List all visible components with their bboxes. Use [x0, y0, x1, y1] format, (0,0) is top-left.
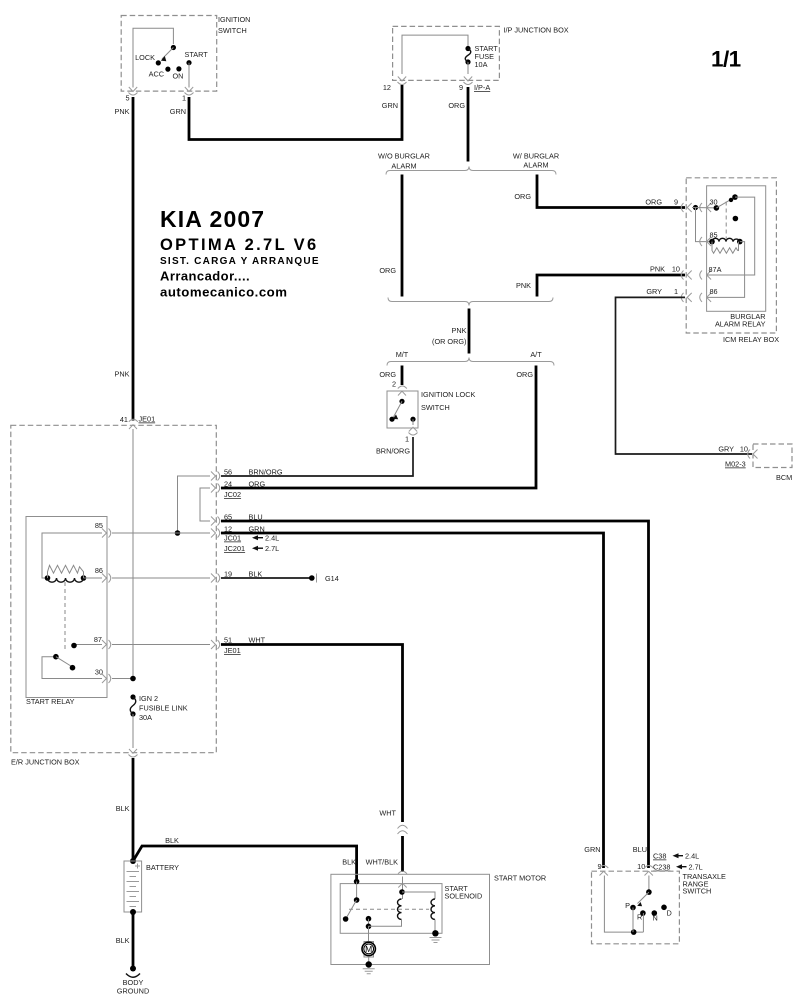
svg-text:86: 86 [95, 566, 103, 575]
svg-text:12: 12 [383, 83, 391, 92]
transaxle pin 10 connector [644, 866, 653, 876]
svg-text:BLK: BLK [165, 836, 179, 845]
start motor box [331, 874, 546, 965]
wire ORG from I/P pin 9 down to brace [448, 87, 468, 162]
node at battery - [130, 909, 136, 915]
inline connector on WHT wire [398, 825, 408, 834]
svg-text:JC201: JC201 [224, 544, 245, 553]
wire PNK (OR ORG) [432, 309, 469, 354]
I/P junction box [393, 26, 569, 81]
solenoid ground [430, 930, 442, 942]
wire start relay pin30 row to JE01 line [112, 678, 133, 680]
transaxle pin 9 connector [599, 866, 608, 876]
pin 5 connector [125, 87, 137, 103]
wire BLK battery to body ground [116, 912, 133, 966]
svg-text:M: M [365, 944, 372, 954]
ignition lock switch internal [389, 399, 415, 425]
svg-text:IGNITION LOCK: IGNITION LOCK [421, 390, 475, 399]
relay coil (burglar alarm relay) [707, 238, 745, 297]
ICM pin 85 connector [700, 231, 718, 247]
svg-text:BLU: BLU [633, 845, 647, 854]
ignition switch box [121, 15, 250, 91]
svg-text:9: 9 [459, 83, 463, 92]
svg-text:ALARM: ALARM [523, 161, 548, 170]
start relay pin 30 connector [95, 668, 111, 684]
I/P pin 12 connector [383, 77, 407, 93]
svg-text:BLK: BLK [116, 936, 130, 945]
wire BLK from E/R pin 19 to G14 [221, 574, 339, 584]
wire start relay pin85 row to E/R pin 12 [112, 532, 210, 534]
wire PNK from ICM 87A to brace [516, 265, 685, 297]
svg-text:ALARM RELAY: ALARM RELAY [715, 320, 766, 329]
svg-text:1: 1 [182, 94, 186, 103]
node BLK entry [354, 879, 360, 885]
svg-text:1/1: 1/1 [711, 47, 741, 72]
ignition switch contacts LOCK ACC ON START [135, 50, 208, 81]
svg-text:30A: 30A [139, 713, 152, 722]
svg-text:C238: C238 [653, 863, 670, 872]
svg-text:ORG: ORG [448, 101, 465, 110]
svg-text:2.7L: 2.7L [265, 544, 279, 553]
E/R internal jumper pin24 to pin65 [200, 488, 210, 521]
svg-text:GRN: GRN [170, 107, 186, 116]
motor ground [363, 957, 375, 974]
starter motor M [362, 942, 375, 958]
svg-text:10: 10 [637, 862, 645, 871]
start relay pin 86 connector [95, 566, 111, 583]
svg-text:OPTIMA 2.7L V6: OPTIMA 2.7L V6 [160, 236, 319, 254]
svg-text:GRN: GRN [584, 845, 600, 854]
node junction pin30/JE01 [130, 676, 136, 682]
svg-text:86: 86 [710, 287, 718, 296]
burglar alarm relay box (inner) [707, 186, 766, 329]
ICM pin 87A connector [681, 265, 721, 280]
solenoid top connector for WHT/BLK [398, 871, 407, 887]
svg-text:A/T: A/T [530, 350, 542, 359]
wire ORG A/T branch down to pin 24 row [221, 366, 536, 489]
solenoid pull-in coil [369, 877, 405, 927]
svg-text:GRN: GRN [382, 101, 398, 110]
svg-text:ORG: ORG [379, 370, 396, 379]
svg-text:2: 2 [392, 380, 396, 389]
start relay pin 87 connector [94, 635, 111, 649]
start relay box [26, 517, 107, 707]
svg-text:IGNITION: IGNITION [218, 15, 250, 24]
start solenoid box [340, 884, 482, 934]
svg-text:Arrancador....: Arrancador.... [160, 268, 250, 283]
svg-text:W/O BURGLAR: W/O BURGLAR [378, 152, 430, 161]
svg-text:SWITCH: SWITCH [421, 403, 450, 412]
svg-text:START MOTOR: START MOTOR [494, 874, 546, 883]
body ground [117, 966, 149, 996]
svg-text:SOLENOID: SOLENOID [445, 892, 483, 901]
BCM box [748, 444, 792, 482]
wire BLK branch to start motor [133, 836, 357, 881]
svg-text:R: R [637, 913, 642, 922]
svg-text:2.4L: 2.4L [265, 534, 279, 543]
E/R pin 12 connector [211, 525, 279, 554]
pin 1 connector (bottom) [405, 427, 418, 443]
svg-text:9: 9 [674, 198, 678, 207]
start relay switch [42, 643, 102, 679]
wire start relay pin86 row to E/R pin 19 [112, 577, 210, 579]
battery [124, 861, 179, 912]
wire GRY from ICM pin 86 to BCM [616, 287, 753, 469]
svg-text:START: START [185, 50, 209, 59]
svg-text:JC01: JC01 [224, 534, 241, 543]
svg-text:PNK: PNK [114, 107, 129, 116]
svg-text:C38: C38 [653, 852, 666, 861]
wire BLK from E/R to battery [116, 758, 133, 861]
svg-text:I/P-A: I/P-A [474, 83, 490, 92]
svg-text:BRN/ORG: BRN/ORG [249, 468, 283, 477]
ignition lock switch box [387, 390, 475, 428]
wire BRN/ORG from lock switch to pin 56 [221, 437, 413, 476]
svg-text:30: 30 [95, 668, 103, 677]
svg-text:P: P [625, 901, 630, 910]
KIA title block [160, 206, 320, 300]
brace split M/T A/T [387, 350, 554, 366]
svg-text:1: 1 [405, 435, 409, 444]
wire GRN from ignition pin 1 [170, 85, 402, 140]
svg-text:PNK: PNK [114, 370, 129, 379]
svg-text:GRY: GRY [646, 287, 662, 296]
svg-text:ORG: ORG [645, 198, 662, 207]
svg-text:10: 10 [740, 445, 748, 454]
start fuse 10A [465, 44, 498, 74]
svg-text:GROUND: GROUND [117, 987, 149, 996]
svg-text:JC02: JC02 [224, 490, 241, 499]
svg-text:PNK: PNK [516, 281, 531, 290]
svg-text:M02-3: M02-3 [725, 460, 746, 469]
brace split W/O and W/ burglar alarm [378, 152, 559, 175]
svg-text:JE01: JE01 [224, 646, 241, 655]
solenoid switch [343, 882, 372, 930]
svg-text:ON: ON [173, 72, 184, 81]
svg-text:56: 56 [224, 468, 232, 477]
E/R pin 19 connector [211, 570, 262, 583]
svg-text:ALARM: ALARM [391, 162, 416, 171]
wire start relay pin87 row to E/R pin 51 [112, 644, 210, 646]
transaxle internal switch [604, 876, 671, 935]
svg-text:10: 10 [672, 265, 680, 274]
ICM pin 30 connector [681, 198, 717, 213]
svg-text:N: N [653, 914, 658, 923]
svg-text:E/R JUNCTION BOX: E/R JUNCTION BOX [11, 758, 80, 767]
svg-text:PNK: PNK [451, 326, 466, 335]
svg-text:automecanico.com: automecanico.com [160, 285, 287, 300]
node at battery + [130, 858, 136, 864]
start relay pin 85 connector [95, 521, 111, 538]
svg-text:ORG: ORG [514, 192, 531, 201]
brace merge to PNK (OR ORG) [388, 298, 553, 306]
transaxle range switch box [592, 871, 727, 944]
start relay coil [42, 533, 102, 652]
svg-text:BLK: BLK [342, 858, 356, 867]
svg-text:WHT: WHT [379, 809, 396, 818]
E/R pin 56 connector [211, 468, 283, 481]
I/P internal wire [402, 35, 468, 74]
svg-text:87A: 87A [709, 265, 722, 274]
relay switch contact 30 [692, 194, 755, 275]
svg-text:SWITCH: SWITCH [683, 887, 712, 896]
wire START contact to pin 1 [188, 63, 190, 88]
svg-text:G14: G14 [325, 574, 339, 583]
svg-text:BATTERY: BATTERY [146, 863, 179, 872]
svg-text:24: 24 [224, 480, 232, 489]
svg-text:(OR ORG): (OR ORG) [432, 337, 466, 346]
svg-text:10A: 10A [475, 60, 488, 69]
svg-text:JE01: JE01 [139, 415, 156, 424]
wire BLU from E/R pin 65 to transaxle [221, 521, 649, 868]
svg-text:FUSIBLE LINK: FUSIBLE LINK [139, 704, 188, 713]
wire PNK from ignition pin 5 down [114, 97, 133, 421]
svg-text:85: 85 [95, 521, 103, 530]
svg-text:BCM: BCM [776, 473, 792, 482]
IGN 2 fusible link 30A [130, 694, 188, 748]
svg-text:M/T: M/T [396, 350, 409, 359]
svg-text:LOCK: LOCK [135, 53, 155, 62]
svg-text:KIA 2007: KIA 2007 [160, 206, 265, 232]
svg-text:1: 1 [674, 287, 678, 296]
wire WHT/BLK continues to solenoid [342, 836, 402, 872]
svg-text:ORG: ORG [516, 370, 533, 379]
svg-text:BRN/ORG: BRN/ORG [376, 447, 410, 456]
node junction on pin 12 row [175, 530, 181, 536]
E/R internal jumper pin56 to pin12 row [178, 476, 211, 533]
ignition switch internal circuit [133, 28, 176, 87]
wire PNK/JE01 inside E/R box [132, 429, 134, 679]
wire ORG left branch of brace [379, 175, 402, 297]
svg-text:PNK: PNK [650, 265, 665, 274]
ICM pin 86 connector [681, 287, 717, 302]
dashed actuator line [349, 908, 429, 910]
svg-text:41: 41 [120, 415, 128, 424]
svg-text:SIST. CARGA Y ARRANQUE: SIST. CARGA Y ARRANQUE [160, 256, 320, 267]
svg-text:WHT/BLK: WHT/BLK [366, 858, 399, 867]
svg-text:IGN 2: IGN 2 [139, 694, 158, 703]
wire to starter motor [368, 926, 370, 941]
wire ORG right branch to ICM relay [514, 175, 685, 208]
svg-text:BLK: BLK [116, 804, 130, 813]
E/R pin 65 connector [211, 513, 263, 526]
pin 41 JE01 connector at E/R top [120, 415, 155, 430]
wire GRN from E/R pin 12 to transaxle [221, 533, 604, 868]
svg-text:2.4L: 2.4L [685, 852, 699, 861]
E/R junction box (dashed) [11, 425, 217, 766]
svg-text:D: D [667, 909, 672, 918]
pin 1 connector [182, 87, 194, 103]
svg-text:W/ BURGLAR: W/ BURGLAR [513, 152, 559, 161]
solenoid hold coil [402, 892, 435, 933]
svg-text:ORG: ORG [379, 266, 396, 275]
E/R bottom connector [129, 749, 138, 757]
ICM relay box (dashed) [686, 178, 779, 344]
svg-text:5: 5 [125, 94, 129, 103]
svg-text:ORG: ORG [249, 480, 266, 489]
node ORG junction at pin 30 [693, 205, 698, 210]
svg-text:I/P JUNCTION BOX: I/P JUNCTION BOX [504, 26, 569, 35]
svg-text:87: 87 [94, 635, 102, 644]
wire from node to relay coil pin 85 [696, 208, 712, 242]
svg-text:ACC: ACC [149, 70, 164, 79]
svg-text:2.7L: 2.7L [689, 863, 703, 872]
connector labels C38/C238 [597, 852, 702, 872]
svg-text:START RELAY: START RELAY [26, 697, 75, 706]
wire WHT from E/R pin 51 to start motor [221, 645, 403, 823]
svg-text:ICM RELAY BOX: ICM RELAY BOX [723, 335, 779, 344]
E/R pin 51 connector [211, 636, 266, 656]
I/P pin 9 connector (I/P-A) [459, 77, 490, 93]
E/R pin 24 connector [211, 480, 265, 500]
pin 2 connector (top) [398, 386, 407, 389]
wire ORG M/T branch to ignition lock switch pin 2 [379, 366, 402, 389]
svg-text:SWITCH: SWITCH [218, 26, 247, 35]
svg-text:GRY: GRY [718, 445, 734, 454]
